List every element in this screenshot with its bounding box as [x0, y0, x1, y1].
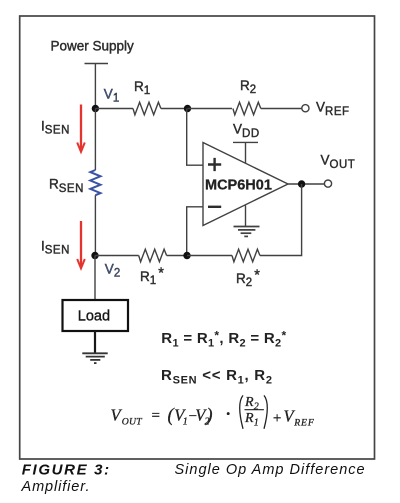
svg-text:VDD: VDD [233, 122, 260, 140]
svg-text:RSEN << R1, R2: RSEN << R1, R2 [161, 367, 273, 387]
bottom wire V2 to R1* [95, 255, 139, 257]
junction dot inverting node [183, 252, 190, 259]
op-amp + input sign [208, 158, 221, 171]
wire junction to R2 [188, 108, 233, 110]
svg-text:V2: V2 [105, 262, 121, 280]
svg-text:REF: REF [293, 418, 314, 429]
wire load to ground [94, 331, 96, 353]
wire power supply to node V1 [94, 64, 96, 109]
wire V1 to R1 [95, 108, 133, 110]
resistor R1* [139, 249, 167, 262]
multiplication dot [227, 412, 230, 415]
wire op-amp - input down to bottom wire [187, 207, 203, 256]
current arrow ISEN bottom [80, 221, 82, 266]
svg-text:MCP6H01: MCP6H01 [205, 178, 272, 194]
svg-text:VREF: VREF [316, 99, 350, 117]
wire junction to R2* [187, 255, 232, 257]
figure frame (decorative) [20, 16, 375, 459]
wire junction down to op-amp + input [187, 109, 203, 166]
resistor R2 [233, 102, 261, 115]
current arrow ISEN top [80, 105, 82, 150]
wire R1* to junction [167, 255, 187, 257]
svg-text:RSEN: RSEN [49, 177, 84, 195]
wire V2 down to load [94, 256, 96, 301]
wire R2 to VREF terminal [261, 108, 302, 110]
svg-text:Single Op Amp Difference: Single Op Amp Difference [175, 462, 366, 478]
resistor R2* (feedback) [232, 249, 260, 262]
svg-text:R1 = R1*, R2 = R2*: R1 = R1*, R2 = R2* [161, 328, 286, 349]
svg-text:V1: V1 [104, 87, 120, 105]
power VDD bar symbol [233, 141, 258, 143]
power supply bar symbol [85, 63, 109, 65]
terminal VREF open circle [302, 105, 309, 112]
terminal VOUT open circle [324, 180, 331, 187]
svg-text:ISEN: ISEN [41, 118, 70, 136]
junction dot node V2 [91, 252, 98, 259]
svg-text:Power Supply: Power Supply [51, 38, 135, 53]
resistor R1 [133, 102, 161, 115]
svg-text:R1: R1 [134, 79, 151, 97]
svg-text:Load: Load [78, 309, 110, 325]
junction dot node V1 [92, 105, 99, 112]
svg-text:V: V [111, 406, 123, 425]
op-amp - input sign [208, 206, 221, 208]
wire op-amp bottom to ground [245, 206, 247, 227]
svg-text:VOUT: VOUT [321, 153, 356, 171]
svg-text:R1*: R1* [140, 265, 164, 287]
junction dot output [298, 180, 305, 187]
svg-text:1: 1 [254, 417, 259, 428]
formula VOUT = (V1-V2)(R2/R1)+VREF [111, 395, 315, 429]
svg-text:ISEN: ISEN [41, 238, 70, 256]
junction dot at R1/R2 [184, 105, 191, 112]
svg-text:2: 2 [254, 401, 259, 412]
load box [63, 300, 129, 331]
big parentheses [240, 395, 243, 428]
svg-text:R: R [244, 395, 254, 410]
wire V1 down to RSEN [94, 109, 96, 171]
ground under load [82, 353, 107, 363]
svg-text:=: = [152, 408, 160, 424]
ground under op-amp [234, 227, 260, 237]
svg-text:FIGURE 3:: FIGURE 3: [22, 462, 111, 479]
wire R1 to junction [161, 108, 188, 110]
svg-text:): ) [205, 406, 212, 426]
wire RSEN to node V2 [94, 195, 96, 255]
svg-text:R: R [244, 411, 254, 426]
svg-text:R2: R2 [240, 78, 257, 96]
resistor RSEN (blue zigzag) [90, 170, 100, 195]
svg-text:Amplifier.: Amplifier. [21, 479, 91, 495]
svg-text:R2*: R2* [236, 267, 260, 289]
wire op-amp output to VOUT [288, 183, 324, 185]
wire VDD to op-amp top [245, 142, 247, 163]
op-amp U1 triangle [203, 143, 288, 226]
svg-text:+: + [273, 410, 281, 426]
svg-text:OUT: OUT [122, 417, 142, 428]
feedback wire R2* to output [260, 184, 302, 256]
